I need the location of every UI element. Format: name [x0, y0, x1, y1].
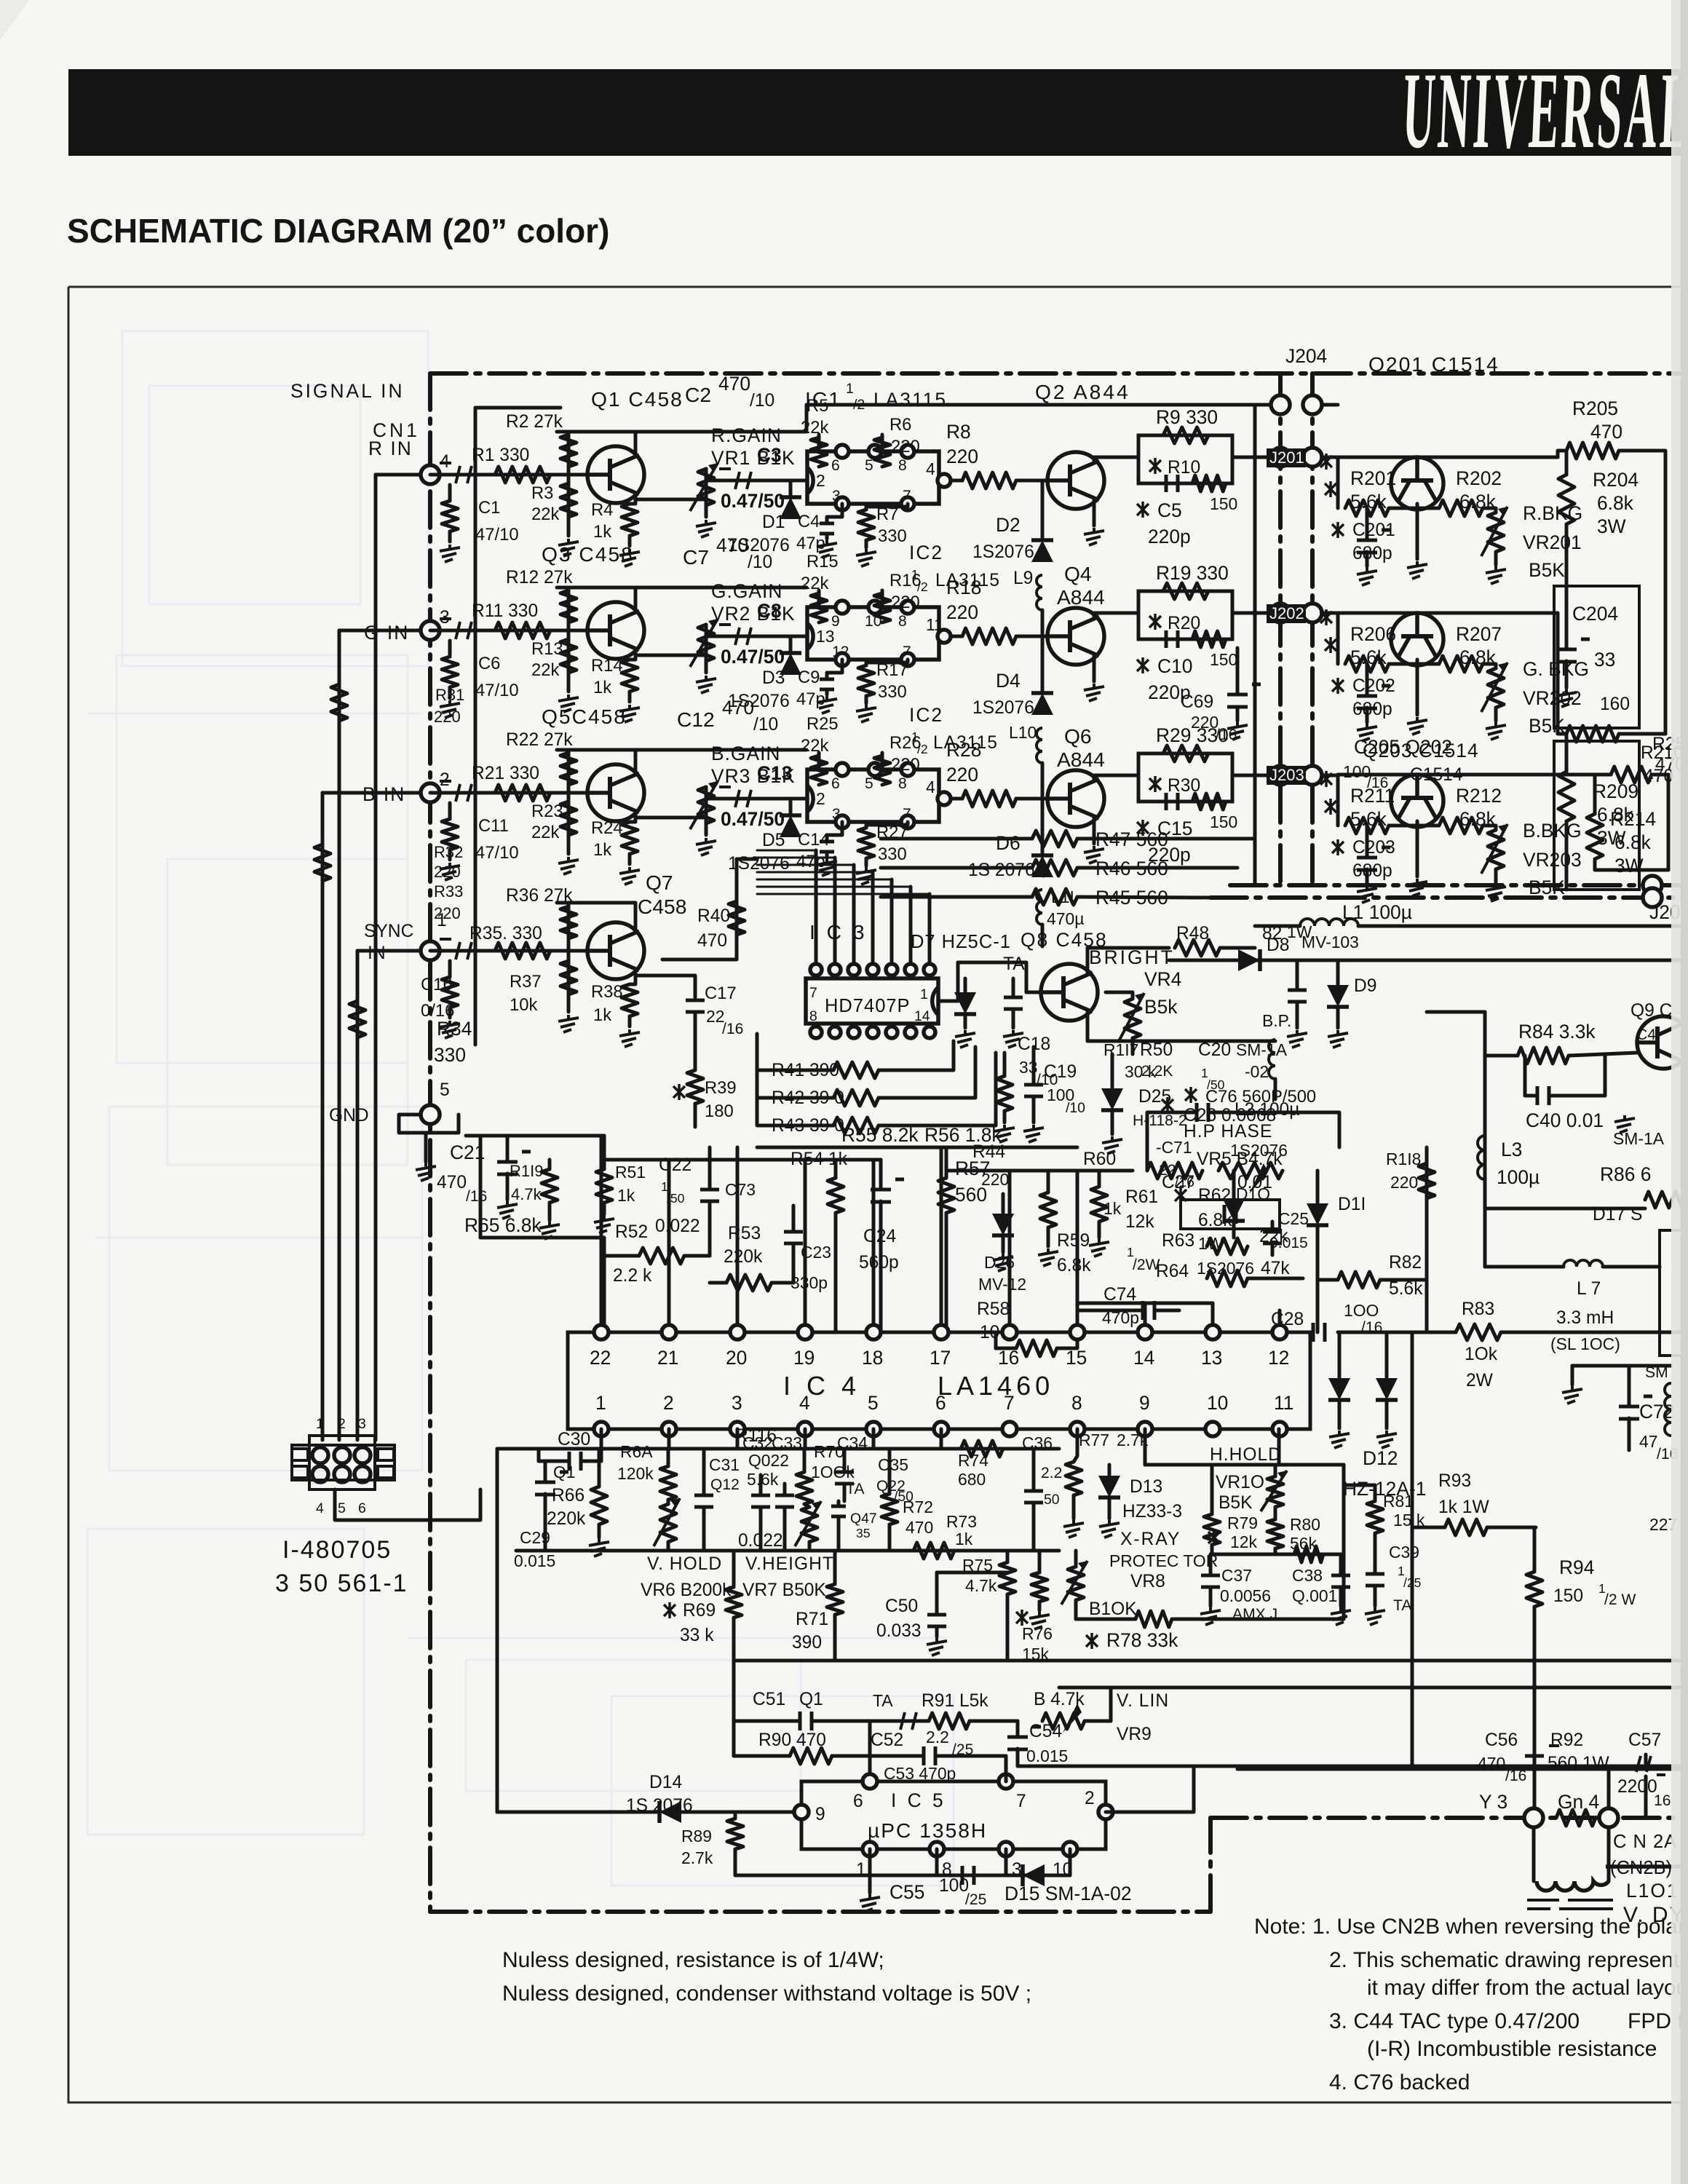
svg-text:35: 35: [856, 1526, 871, 1540]
svg-text:330: 330: [434, 1044, 466, 1066]
pin 1 IC4 bottom: [594, 1422, 609, 1436]
svg-text:R1 330: R1 330: [472, 446, 529, 465]
diode D26: [992, 1214, 1014, 1235]
resistor R79 body: [1204, 1514, 1220, 1545]
resistor R69: [664, 1602, 675, 1618]
wire C54 top: [1016, 1721, 1020, 1737]
wire box to J204 Q4: [1232, 612, 1338, 615]
svg-text:HZ33-3: HZ33-3: [1122, 1502, 1182, 1522]
transistor Q8: [1041, 964, 1098, 1021]
svg-text:330: 330: [878, 526, 907, 546]
IC5 pin 6: [863, 1774, 877, 1789]
svg-text:R78 33k: R78 33k: [1106, 1629, 1178, 1651]
svg-text:R33: R33: [434, 882, 463, 901]
svg-text:C37: C37: [1221, 1566, 1252, 1585]
resistor R84: [1518, 1048, 1569, 1064]
capacitor C38 body: [1331, 1575, 1350, 1587]
wire emitter to pot VR1 B1K: [635, 498, 706, 502]
wire collector Q5: [634, 750, 638, 773]
svg-text:R84 3.3k: R84 3.3k: [1518, 1021, 1596, 1042]
wire Q8 collector: [1087, 948, 1169, 973]
svg-text:C20: C20: [1198, 1040, 1231, 1060]
vertical rail x1940: [1411, 1332, 1414, 1769]
svg-text:R9 330: R9 330: [1156, 406, 1218, 428]
wire SYNC vertical run: [356, 951, 360, 1440]
pot VR7: [801, 1507, 817, 1542]
svg-text:B5K: B5K: [1529, 559, 1565, 581]
ground Q201: [1407, 561, 1427, 579]
svg-text:VR2 B1K: VR2 B1K: [711, 603, 796, 625]
resistor R64: [1207, 1270, 1248, 1286]
wire VR10 top: [1274, 1465, 1277, 1476]
resistor R209 box: [1554, 741, 1639, 890]
wire C37 top: [1209, 1554, 1213, 1574]
wire R72 bot: [888, 1524, 892, 1551]
svg-text:C4: C4: [1636, 1026, 1656, 1043]
wire to Q4: [1016, 635, 1047, 638]
resistor R28 220: [962, 791, 1016, 807]
wire collector Q1: [634, 432, 638, 455]
svg-text:D14: D14: [649, 1773, 682, 1792]
svg-text:R39: R39: [705, 1078, 737, 1098]
svg-text:C458: C458: [638, 895, 686, 918]
bright rail: [1087, 1040, 1275, 1043]
wire C72 link: [1572, 1364, 1671, 1368]
wire R91 r: [970, 1720, 1018, 1723]
wire pin15 feed: [1076, 1171, 1079, 1325]
resistor R26 220: [881, 753, 884, 769]
IC5 pin 1: [863, 1842, 877, 1856]
svg-text:5: 5: [440, 1080, 450, 1100]
transistor Q4: [1047, 608, 1104, 665]
svg-text:VR1O: VR1O: [1216, 1473, 1264, 1492]
wire R40 up to bus: [735, 859, 739, 901]
resistor R44: [996, 1076, 1013, 1111]
svg-text:0.022: 0.022: [738, 1531, 783, 1551]
svg-text:220: 220: [946, 764, 978, 786]
resistor R38: [622, 984, 638, 1016]
bright D8 rail: [1169, 959, 1688, 962]
capacitor C27 body: [1224, 1205, 1236, 1224]
svg-text:680p: 680p: [1352, 544, 1392, 563]
capacitor C3 0.47/50: [719, 469, 751, 489]
svg-text:C26 0.0068: C26 0.0068: [1184, 1106, 1276, 1125]
svg-text:2: 2: [816, 789, 825, 808]
connector pins top: [312, 1447, 328, 1463]
potentiometer VR1 B1K: [705, 469, 708, 505]
svg-text:C2: C2: [685, 383, 711, 406]
svg-text:C4: C4: [798, 512, 820, 531]
svg-text:4: 4: [799, 1392, 810, 1414]
wire C74 l: [1077, 1309, 1143, 1313]
resistor R37: [560, 961, 576, 994]
wire gnd drop: [424, 1133, 428, 1162]
wire R48 right: [1220, 946, 1255, 950]
wire C57 bot: [1644, 1776, 1648, 1818]
capacitor sync input: [440, 939, 472, 960]
ground SM: [1614, 1115, 1635, 1133]
potentiometer VR4: [1125, 999, 1141, 1038]
svg-text:I-480705: I-480705: [282, 1536, 392, 1564]
resistor R25 22k: [817, 753, 821, 769]
wire pin18 feed: [872, 1160, 876, 1325]
wire R84 l: [1485, 1054, 1518, 1058]
svg-text:220: 220: [891, 593, 920, 612]
resistor R204: [1558, 475, 1574, 524]
resistor B10K body: [1136, 1611, 1172, 1627]
wire C21 rail: [466, 1134, 604, 1138]
schematic dash-dot border top: [430, 371, 1688, 376]
resistor R12 27k: [567, 587, 571, 630]
svg-text:4: 4: [926, 778, 935, 796]
resistor R2 27k: [567, 432, 571, 475]
wire VR6 link: [667, 1500, 670, 1504]
svg-text:8: 8: [898, 613, 907, 630]
op-amp IC2 half block: [807, 769, 939, 822]
svg-text:2200: 2200: [1617, 1777, 1657, 1797]
svg-text:47p: 47p: [796, 534, 825, 553]
wire C25: [1271, 1222, 1275, 1230]
svg-text:R1I7: R1I7: [1103, 1040, 1138, 1059]
svg-text:R63: R63: [1162, 1231, 1194, 1251]
pot VR8: [1068, 1567, 1084, 1600]
wire R76 top: [1038, 1551, 1042, 1572]
svg-text:15: 15: [1066, 1347, 1087, 1369]
pin 16 IC4: [1002, 1325, 1017, 1340]
parallel box R19 330: [1138, 591, 1232, 639]
resistor R20 in box: [1192, 631, 1226, 647]
pin out IC2: [938, 792, 951, 805]
schematic dash-dot border left: [428, 373, 432, 1912]
resistor R77 body: [1066, 1462, 1082, 1495]
potentiometer VR201: [1483, 508, 1496, 513]
wire pot to cap C3 0.47/50: [706, 469, 807, 480]
svg-text:R211: R211: [1350, 785, 1395, 807]
wire emitter Q202: [1416, 660, 1419, 715]
svg-text:C31: C31: [709, 1455, 740, 1474]
svg-text:R65 6.8k: R65 6.8k: [464, 1214, 542, 1236]
wire R90 l: [734, 1754, 790, 1758]
svg-text:560 1W: 560 1W: [1548, 1754, 1610, 1773]
coil L1: [1300, 919, 1358, 926]
resistor R68: [660, 1466, 676, 1500]
resistor R51: [596, 1169, 612, 1203]
wire C36 top: [1032, 1449, 1036, 1489]
core lines L101: [1527, 1900, 1613, 1909]
wire left rail Q203: [1336, 775, 1340, 826]
capacitor C51 body: [800, 1712, 812, 1730]
svg-text:0.015: 0.015: [1026, 1746, 1068, 1765]
capacitor C52 slash: [900, 1712, 916, 1730]
wire box to J204 Q2: [1232, 456, 1338, 459]
svg-text:C11: C11: [478, 816, 509, 836]
resistor R59: [1040, 1192, 1056, 1227]
schematic dash-dot border bottom: [430, 1910, 1210, 1914]
svg-text:R23: R23: [531, 802, 563, 821]
svg-text:C1: C1: [478, 498, 500, 518]
svg-text:C32: C32: [742, 1433, 773, 1452]
right vertical 1846: [1342, 1465, 1346, 1619]
diode D5 1S2076: [780, 815, 801, 837]
svg-text:680p: 680p: [1352, 861, 1392, 881]
svg-text:220: 220: [434, 904, 461, 922]
svg-text:C29: C29: [520, 1528, 550, 1547]
wire out IC1: [951, 479, 962, 483]
svg-text:R55 8.2k: R55 8.2k: [841, 1124, 919, 1146]
wire VLIN drop: [1109, 1688, 1113, 1721]
svg-text:/16: /16: [1216, 727, 1237, 743]
wire TA top: [837, 1501, 841, 1506]
diode D2: [1031, 540, 1053, 562]
svg-text:D1: D1: [762, 513, 785, 532]
ground R77: [1063, 1520, 1084, 1538]
svg-text:C203: C203: [1352, 838, 1395, 858]
capacitor C14 47p: [820, 842, 834, 852]
svg-text:B5K: B5K: [1529, 877, 1565, 898]
wire pin2 right: [1106, 1766, 1194, 1812]
svg-text:6: 6: [935, 1392, 946, 1414]
pins bottom IC1: [836, 497, 849, 510]
ground Q202: [1407, 717, 1427, 735]
svg-text:2.2: 2.2: [1041, 1465, 1062, 1481]
capacitor C5 220p in box: [1166, 475, 1178, 492]
svg-text:C202: C202: [1352, 676, 1395, 696]
wire emitter Q4: [1093, 656, 1096, 681]
resistor R83: [1456, 1324, 1501, 1340]
svg-text:1S2076: 1S2076: [972, 542, 1034, 562]
wire C32 top: [759, 1484, 763, 1494]
wire Q7 to C17: [635, 976, 695, 997]
svg-text:470: 470: [697, 931, 727, 951]
wire out IC2: [951, 635, 962, 638]
svg-text:1S2076: 1S2076: [972, 698, 1034, 718]
right vertical rail: [1664, 510, 1668, 734]
transistor Q203: [1391, 775, 1443, 827]
svg-text:/16: /16: [722, 1021, 743, 1037]
resistor R81 body: [1367, 1501, 1383, 1533]
svg-text:3W: 3W: [1597, 515, 1626, 537]
pin 19 IC4: [798, 1325, 812, 1340]
J204 crossing circles Q6: [1271, 766, 1290, 785]
coil L10: [1037, 728, 1042, 763]
wire R58 l2: [994, 1332, 998, 1348]
svg-text:1: 1: [595, 1392, 606, 1414]
svg-text:1k: 1k: [955, 1530, 973, 1548]
wire C39 bot: [1374, 1587, 1377, 1606]
wire Q9 row top: [1427, 1010, 1485, 1014]
wire emitter Q203: [1416, 821, 1419, 877]
wire R72 top: [888, 1449, 892, 1494]
transistor Q5: [587, 764, 644, 821]
svg-text:0.47/50: 0.47/50: [721, 808, 785, 830]
svg-text:MV-103: MV-103: [1301, 933, 1359, 951]
svg-text:C55: C55: [889, 1881, 924, 1903]
svg-text:220: 220: [946, 601, 978, 623]
svg-text:14: 14: [1133, 1347, 1154, 1369]
wire D11 stem: [1316, 1171, 1320, 1203]
svg-text:D17 S: D17 S: [1593, 1205, 1642, 1224]
svg-text:R214: R214: [1610, 808, 1656, 830]
svg-text:C24: C24: [863, 1227, 896, 1246]
wire pot to cap C13 0.47/50: [706, 787, 807, 799]
svg-text:C38: C38: [1292, 1566, 1323, 1585]
svg-text:R71: R71: [796, 1610, 828, 1629]
svg-text:R53: R53: [728, 1224, 761, 1243]
header black banner: [68, 69, 1688, 156]
svg-text:R81: R81: [1383, 1492, 1414, 1511]
resistor R8 220: [962, 472, 1016, 488]
capacitor C21: [497, 1152, 531, 1174]
capacitor C8 0.47/50: [719, 625, 751, 645]
svg-text:R204: R204: [1593, 469, 1639, 491]
svg-text:47: 47: [1639, 1432, 1657, 1451]
pin 4 IC4 bottom: [798, 1422, 812, 1436]
svg-text:220k: 220k: [724, 1247, 763, 1267]
svg-text:1k: 1k: [593, 1005, 611, 1025]
pin 3 junction GIN: [421, 621, 440, 640]
svg-text:D12: D12: [1363, 1447, 1398, 1469]
svg-text:VR201: VR201: [1523, 531, 1582, 553]
ground Q6 emitter: [1084, 846, 1104, 863]
svg-text:Q6: Q6: [1064, 724, 1092, 748]
capacitor C11 47/10 input coupling: [440, 781, 472, 802]
coil L2: [1269, 1040, 1275, 1079]
zener D12b: [1376, 1378, 1398, 1400]
svg-text:R1I9: R1I9: [510, 1162, 543, 1180]
capacitor BP: [1288, 990, 1307, 1002]
svg-text:R206: R206: [1350, 623, 1396, 645]
svg-text:H‑118-2: H‑118-2: [1133, 1112, 1187, 1129]
svg-text:C39: C39: [1389, 1543, 1419, 1562]
wire BIN vertical run: [321, 793, 325, 1440]
resistor R15 22k: [817, 590, 821, 607]
svg-text:5: 5: [868, 1392, 879, 1414]
resistor R29 330 on box top: [1163, 745, 1208, 761]
svg-text:R8: R8: [946, 421, 971, 443]
svg-text:J203: J203: [1269, 766, 1304, 784]
svg-text:R66: R66: [552, 1486, 585, 1506]
svg-text:7: 7: [809, 985, 817, 1001]
wire base row Q3: [430, 629, 587, 633]
svg-text:6: 6: [831, 775, 840, 792]
svg-text:5: 5: [865, 457, 873, 474]
ghost print-through shapes: [87, 331, 954, 1886]
wire C34 top: [843, 1449, 847, 1471]
svg-text:R28: R28: [946, 739, 981, 761]
wire C73 top: [708, 1147, 712, 1190]
capacitor C72: [1619, 1396, 1652, 1419]
svg-text:L 7: L 7: [1577, 1279, 1601, 1299]
svg-text:MV-12: MV-12: [978, 1275, 1026, 1294]
resistor R213: [1611, 767, 1652, 783]
wire C56 bot: [1533, 1769, 1537, 1808]
svg-text:/25: /25: [965, 1891, 986, 1908]
resistor R11 330: [495, 622, 550, 638]
svg-text:180: 180: [705, 1101, 734, 1121]
capacitor C25: [1263, 1232, 1282, 1243]
svg-text:R15: R15: [807, 552, 839, 571]
wire R77 top: [1074, 1429, 1077, 1462]
wire pin1 gnd: [868, 1849, 872, 1893]
page top-left corner shading: [0, 0, 29, 40]
svg-text:R80: R80: [1290, 1515, 1320, 1534]
wire Q7 out to R40: [662, 901, 737, 960]
svg-text:C35: C35: [878, 1455, 908, 1474]
resistor R52: [639, 1248, 684, 1264]
svg-text:C52: C52: [871, 1730, 903, 1750]
pin 9 IC4 bottom: [1138, 1422, 1152, 1436]
coil L101: [1537, 1881, 1609, 1891]
svg-text:47/10: 47/10: [475, 525, 519, 545]
wire R60 top: [1098, 1171, 1101, 1187]
wire L7 rail: [1485, 1265, 1564, 1269]
resistor R60: [1091, 1187, 1107, 1222]
resistor R17 330: [858, 665, 874, 696]
wire 2110 drop: [1533, 1527, 1537, 1543]
below bus B: [516, 1549, 1059, 1553]
resistor R57: [938, 1178, 954, 1213]
svg-text:560p: 560p: [859, 1253, 899, 1273]
op-amp IC2 half block: [807, 607, 939, 660]
diode D13: [1098, 1476, 1120, 1497]
pins top IC2: [836, 763, 849, 776]
capacitor C26: [1197, 1103, 1208, 1122]
diode D6: [1031, 855, 1053, 877]
svg-text:Nuless designed, resistance is: Nuless designed, resistance is of 1/4W;: [502, 1948, 884, 1972]
svg-text:0/16: 0/16: [421, 1001, 454, 1021]
svg-text:C16: C16: [421, 975, 453, 994]
vertical rail x1960: [1425, 1147, 1429, 1332]
capacitor C1 47/10 input coupling: [440, 463, 472, 483]
box right panel: [1660, 1230, 1688, 1356]
svg-text:C19: C19: [1044, 1062, 1077, 1082]
resistor R72 body: [881, 1494, 898, 1524]
svg-text:R93: R93: [1438, 1471, 1471, 1491]
wire C50 link: [937, 1571, 1007, 1575]
svg-text:Q4: Q4: [1064, 562, 1092, 585]
wire pot to cap C8 0.47/50: [706, 625, 807, 636]
wire pin16 feed: [1008, 1171, 1012, 1325]
svg-text:(I-R) Incombustible resistance: (I-R) Incombustible resistance: [1367, 2037, 1657, 2061]
wire base bus Q201: [1338, 456, 1558, 459]
wire bus link: [805, 405, 809, 432]
wire C53 l: [832, 1754, 924, 1758]
wire VR6 bot: [667, 1542, 670, 1551]
svg-text:PROTEC TOR: PROTEC TOR: [1109, 1551, 1218, 1570]
wire to Q6: [1016, 797, 1047, 801]
pin12 bus: [1280, 1331, 1313, 1334]
resistor R71 body: [827, 1584, 843, 1615]
svg-text:0.01: 0.01: [1237, 1173, 1272, 1192]
svg-text:H.HOLD: H.HOLD: [1210, 1445, 1282, 1465]
diode D8: [1238, 949, 1260, 971]
wire D7 top: [964, 978, 967, 992]
resistor R3 22k: [567, 475, 571, 536]
svg-text:J201: J201: [1269, 448, 1304, 467]
resistor R80 body: [1267, 1519, 1283, 1548]
wire Q7 collector: [557, 903, 635, 931]
pin 10 IC4 bottom: [1205, 1422, 1220, 1436]
svg-text:/10: /10: [1066, 1100, 1085, 1116]
svg-text:R91 L5k: R91 L5k: [922, 1691, 988, 1711]
wire pin17 feed: [940, 1147, 943, 1325]
capacitor C11 47/10 shunt: [442, 819, 458, 850]
svg-text:330p: 330p: [790, 1273, 828, 1292]
resistor R79: [1208, 1530, 1220, 1546]
svg-text:47/10: 47/10: [475, 843, 519, 863]
svg-text:Q12: Q12: [710, 1476, 740, 1493]
resistor R40: [729, 901, 745, 935]
